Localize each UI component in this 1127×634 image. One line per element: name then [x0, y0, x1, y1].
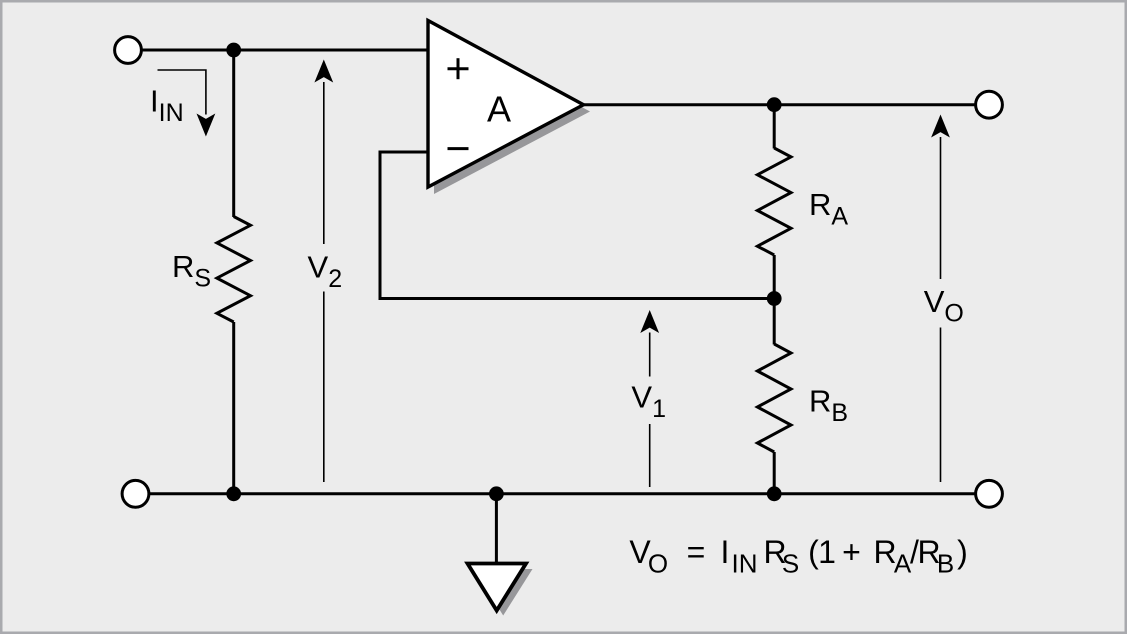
label IIN: [150, 84, 184, 128]
svg-text:O: O: [648, 549, 668, 579]
svg-text:A: A: [487, 89, 511, 130]
node dot bottom rail right junction: [767, 486, 782, 501]
label VO: [924, 284, 964, 328]
terminal input top-left: [115, 37, 142, 64]
resistor RB: [757, 344, 791, 452]
resistor RS: [217, 217, 251, 323]
terminal bottom-left: [122, 480, 149, 507]
wire op-amp output rail: [583, 103, 989, 106]
node dot bottom rail left junction: [226, 486, 241, 501]
voltage arrow V1: [640, 310, 659, 487]
svg-text:+: +: [842, 534, 861, 570]
label RA: [809, 187, 848, 231]
op-amp gain label A: [487, 89, 511, 130]
op-amp U1: [428, 21, 584, 188]
node dot output junction: [767, 97, 782, 112]
ground shadow: [474, 569, 533, 616]
node dot bottom rail ground junction: [489, 486, 504, 501]
wire RA top lead: [773, 105, 776, 149]
svg-text:I: I: [721, 534, 730, 570]
op-amp U1 shadow: [434, 27, 590, 195]
wire Rs branch bottom: [232, 322, 235, 494]
op-amp plus input marker: [448, 58, 469, 79]
wire RB top lead: [773, 299, 776, 345]
ground: [468, 564, 527, 611]
wire bottom rail: [137, 492, 989, 495]
label RB: [809, 384, 848, 428]
svg-text:): ): [957, 534, 968, 570]
wire ground stem: [495, 494, 498, 563]
terminal bottom-right: [976, 480, 1003, 507]
node dot top input junction: [226, 43, 241, 58]
label RS: [172, 249, 211, 293]
node dot RA-RB junction: [767, 291, 782, 306]
current arrow IIN: [158, 70, 216, 137]
terminal output top-right: [976, 91, 1003, 118]
wire top rail: [130, 49, 427, 52]
voltage arrow VO: [931, 115, 950, 483]
svg-text:S: S: [782, 549, 799, 579]
wire RA bottom lead: [773, 255, 776, 299]
wire RB bottom lead: [773, 452, 776, 494]
resistor RA: [757, 148, 791, 255]
op-amp minus input marker: [448, 147, 469, 150]
voltage arrow V2: [314, 60, 333, 483]
svg-text:1: 1: [818, 534, 836, 570]
formula VO = IIN RS (1 + RA/RB): [629, 534, 968, 579]
wire Rs branch top: [232, 50, 235, 217]
label V1: [631, 380, 666, 424]
wire feedback from inverting input: [380, 152, 774, 299]
svg-text:IN: IN: [732, 549, 758, 579]
label V2: [308, 249, 343, 293]
svg-text:B: B: [937, 549, 954, 579]
svg-text:=: =: [687, 534, 706, 570]
